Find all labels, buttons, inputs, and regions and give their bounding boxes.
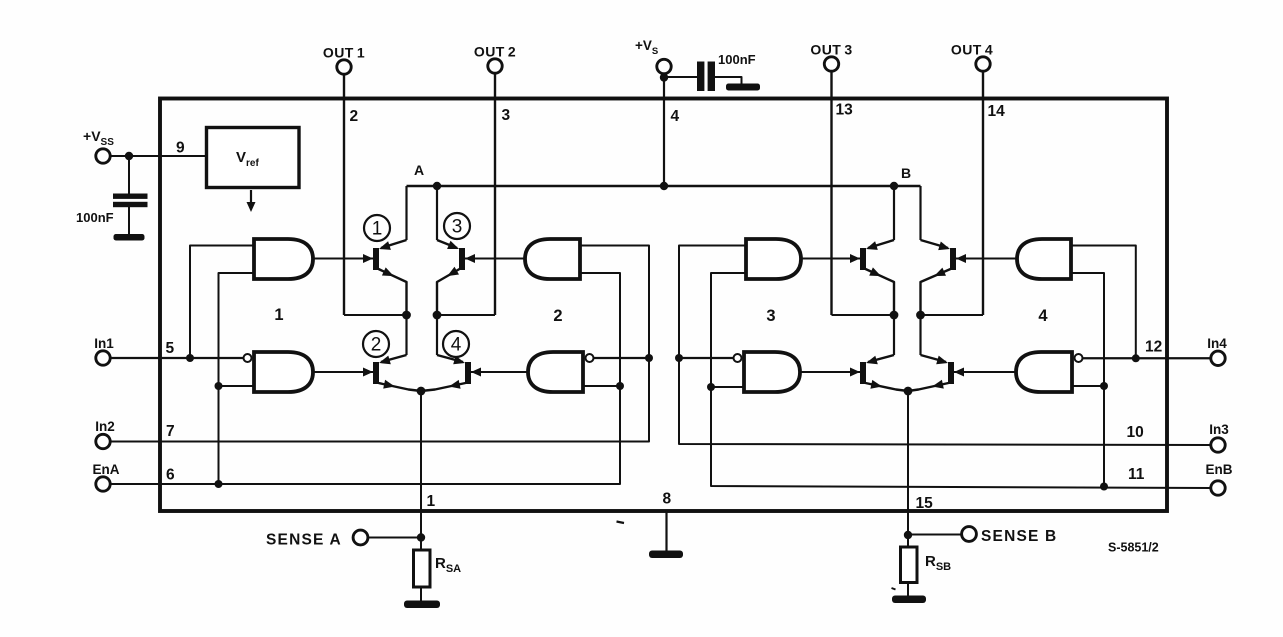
- transistor Q7/Q8-lower emitter: [908, 383, 949, 391]
- resistor RSA: [414, 550, 431, 587]
- wire OUT3 stem pin 13: [830, 71, 832, 315]
- svg-text:7: 7: [166, 423, 175, 440]
- transistor Q1/Q2-upper bar: [373, 248, 379, 270]
- node In1 junction: [186, 354, 194, 362]
- svg-text:EnA: EnA: [93, 462, 120, 477]
- wire EnA stub to gate2b: [583, 385, 620, 387]
- wire OUT1 stem pin 2: [343, 74, 345, 315]
- node +Vss junction: [125, 152, 133, 160]
- transistor Q5/Q6-upper base lead: [801, 258, 860, 260]
- node In2 gate2b tap: [645, 354, 653, 362]
- transistor number 1 circled: [364, 215, 390, 241]
- wire In4 row pin 12: [1083, 357, 1211, 359]
- svg-text:4: 4: [451, 335, 462, 356]
- svg-text:100nF: 100nF: [76, 210, 114, 225]
- svg-text:11: 11: [1128, 466, 1145, 483]
- AND gate 4b: [1016, 352, 1072, 392]
- ground symbol sense B: [892, 596, 926, 604]
- stray mark below border: [617, 522, 625, 524]
- svg-text:SENSE B: SENSE B: [981, 528, 1057, 545]
- terminal In3 circle: [1211, 438, 1225, 452]
- wire EnB row pin 11: [711, 273, 1211, 488]
- terminal SENSE B circle: [962, 527, 977, 542]
- terminal EnA circle: [96, 477, 110, 491]
- svg-text:12: 12: [1145, 339, 1162, 356]
- svg-text:9: 9: [176, 140, 185, 157]
- transistor Q1/Q2-upper emitter: [379, 269, 407, 315]
- wire sense B to resistor: [907, 535, 909, 547]
- svg-text:A: A: [414, 162, 424, 178]
- svg-text:In4: In4: [1207, 336, 1227, 351]
- wire Q7/Q8 upper riser: [919, 186, 921, 240]
- node EnB gate3b tap: [707, 383, 715, 391]
- terminal OUT2 circle: [488, 59, 502, 73]
- wire +Vs to capacitor: [664, 76, 698, 78]
- transistor Q3/Q4-upper base lead: [465, 258, 525, 260]
- transistor Q7/Q8-lower bar: [948, 362, 954, 384]
- AND gate 2a: [525, 239, 580, 279]
- node sense B junction: [904, 531, 912, 539]
- node Q3/Q4 output junction: [433, 311, 442, 320]
- svg-text:OUT 3: OUT 3: [810, 42, 852, 58]
- block Vref: [207, 128, 300, 188]
- wire EnA riser block1: [219, 273, 255, 484]
- wire EnA stub to gate1b: [219, 385, 255, 387]
- node sense A junction: [417, 533, 425, 541]
- wire EnB stub to gate3b: [711, 386, 744, 388]
- svg-text:8: 8: [663, 491, 672, 508]
- wire Q1/Q2 upper riser: [405, 186, 407, 240]
- terminal In4 circle: [1211, 351, 1225, 365]
- transistor Q3/Q4-upper emitter: [437, 269, 460, 315]
- Vref output arrow: [250, 190, 252, 206]
- svg-text:1: 1: [372, 219, 383, 240]
- transistor Q3/Q4-lower collector diagonal: [437, 355, 463, 362]
- wire In3 row pin 10: [679, 246, 1211, 446]
- svg-text:3: 3: [766, 307, 775, 325]
- wire Q3/Q4 output to pin: [437, 314, 495, 316]
- wire +Vss to Vref pin 9: [110, 155, 206, 157]
- svg-text:SENSE A: SENSE A: [266, 532, 342, 549]
- wire In1 riser to gate1a: [190, 246, 254, 359]
- svg-text:100nF: 100nF: [718, 52, 756, 67]
- wire RSB to ground: [907, 583, 909, 597]
- svg-text:3: 3: [452, 217, 463, 238]
- wire C1 to ground: [128, 207, 130, 235]
- transistor number 3 circled: [444, 213, 470, 239]
- transistor Q5/Q6-lower collector diagonal: [868, 355, 894, 362]
- wire In2 row: [110, 246, 649, 442]
- wire Q3/Q4 lower riser: [436, 315, 438, 355]
- transistor Q3/Q4-lower emitter: [421, 383, 466, 391]
- svg-text:1: 1: [274, 306, 283, 324]
- transistor Q5/Q6-upper emitter: [866, 269, 895, 315]
- svg-text:OUT 1: OUT 1: [323, 45, 365, 61]
- capacitor C1 100nF plates: [113, 194, 148, 199]
- svg-text:In1: In1: [94, 336, 114, 351]
- transistor Q1/Q2-upper collector diagonal: [381, 240, 407, 248]
- transistor number 2 circled: [363, 331, 389, 357]
- transistor Q5/Q6-lower bar: [860, 362, 866, 384]
- node EnA gate1b tap: [215, 382, 223, 390]
- resistor RSB: [901, 547, 918, 583]
- ground symbol left cap: [114, 234, 145, 241]
- wire Q3/Q4 upper riser: [436, 186, 438, 240]
- wire Q7/Q8 lower riser: [919, 315, 921, 355]
- svg-text:13: 13: [836, 102, 854, 119]
- node In4 junction: [1132, 354, 1140, 362]
- wire Q5/Q6 upper riser: [893, 186, 895, 240]
- wire EnB stub to gate4b: [1072, 385, 1104, 387]
- transistor Q7/Q8-upper bar: [950, 248, 956, 270]
- inverting bubble gate3b: [734, 354, 742, 362]
- transistor Q1/Q2-upper base lead: [313, 258, 373, 260]
- AND gate 3a: [746, 239, 801, 279]
- AND gate 2b: [528, 352, 583, 392]
- node In3 gate3b tap: [675, 354, 683, 362]
- stray mark near RSB ground: [892, 588, 896, 590]
- wire sense A to resistor: [420, 538, 422, 551]
- transistor Q7/Q8-upper collector diagonal: [921, 240, 949, 248]
- node Q7/Q8 output junction: [916, 311, 925, 320]
- terminal In1 circle: [96, 351, 110, 365]
- svg-text:In3: In3: [1209, 422, 1229, 437]
- svg-text:OUT 4: OUT 4: [951, 42, 993, 58]
- terminal EnB circle: [1211, 481, 1225, 495]
- wire OUT4 stem pin 14: [982, 71, 984, 315]
- svg-text:4: 4: [671, 108, 680, 125]
- node Q1/Q2 output junction: [402, 311, 411, 320]
- transistor Q5/Q6-lower emitter: [866, 383, 909, 391]
- node A: [433, 182, 441, 190]
- wire +Vs rail A to B: [407, 185, 921, 187]
- svg-text:14: 14: [988, 103, 1006, 120]
- wire EnA row: [110, 273, 620, 484]
- terminal OUT3 circle: [824, 57, 838, 71]
- transistor Q7/Q8-lower base lead: [954, 371, 1016, 373]
- AND gate 1b: [254, 352, 313, 392]
- wire OUT2 stem pin 3: [494, 73, 496, 315]
- transistor Q7/Q8-upper emitter: [921, 269, 951, 315]
- wire Q1/Q2 lower riser: [405, 315, 407, 355]
- node EnB gate4b tap: [1100, 382, 1108, 390]
- node bridge A common emitter: [417, 387, 426, 396]
- wire +Vss to capacitor C1: [128, 156, 130, 196]
- transistor Q5/Q6-lower base lead: [800, 371, 860, 373]
- svg-text:6: 6: [166, 467, 175, 484]
- transistor Q3/Q4-lower base lead: [471, 371, 528, 373]
- wire Q5/Q6 output to pin: [832, 314, 895, 316]
- transistor Q3/Q4-upper collector diagonal: [437, 240, 457, 248]
- svg-text:OUT 2: OUT 2: [474, 44, 516, 60]
- transistor Q3/Q4-upper bar: [459, 248, 465, 270]
- svg-text:4: 4: [1038, 307, 1048, 325]
- ground symbol top cap: [726, 84, 760, 91]
- transistor Q1/Q2-lower base lead: [313, 371, 373, 373]
- node EnA gate2b tap: [616, 382, 624, 390]
- svg-text:In2: In2: [95, 419, 115, 434]
- wire In3 stub to gate3b bubble: [679, 357, 734, 359]
- transistor Q3/Q4-lower bar: [465, 362, 471, 384]
- wire Q5/Q6 lower riser: [893, 315, 895, 355]
- wire sense A to terminal: [368, 537, 422, 539]
- svg-text:S-5851/2: S-5851/2: [1108, 541, 1159, 555]
- AND gate 1a: [254, 239, 313, 279]
- svg-text:B: B: [901, 165, 911, 181]
- transistor Q1/Q2-lower collector diagonal: [381, 355, 407, 362]
- inverting bubble gate4b: [1075, 354, 1083, 362]
- terminal OUT1 circle: [337, 60, 351, 74]
- wire Q1/Q2 output to pin: [344, 314, 407, 316]
- wire sense A pin 1: [420, 391, 422, 538]
- transistor number 4 circled: [443, 331, 469, 357]
- svg-text:10: 10: [1127, 424, 1144, 441]
- terminal +Vss circle: [96, 149, 110, 163]
- transistor Q7/Q8-lower collector diagonal: [921, 355, 947, 362]
- transistor Q7/Q8-upper base lead: [956, 258, 1017, 260]
- terminal SENSE A circle: [353, 530, 368, 545]
- node bridge B common emitter: [904, 387, 913, 396]
- wire capacitor to ground: [715, 77, 742, 84]
- IC boundary box: [160, 99, 1167, 512]
- terminal +Vs circle: [657, 59, 671, 73]
- ground symbol pin 8: [649, 551, 683, 559]
- svg-text:1: 1: [427, 493, 436, 510]
- svg-text:2: 2: [350, 108, 359, 125]
- node Q5/Q6 output junction: [890, 311, 899, 320]
- wire RSA to ground: [420, 587, 422, 601]
- AND gate 4a: [1017, 239, 1071, 279]
- wire In2 stub to gate2b bubble: [594, 357, 650, 359]
- node rail +Vs junction: [660, 182, 668, 190]
- node +Vs junction: [660, 73, 668, 81]
- svg-text:2: 2: [553, 307, 562, 325]
- wire EnB riser block4: [1071, 273, 1104, 487]
- wire In4 riser to gate4a: [1071, 246, 1136, 359]
- svg-text:5: 5: [166, 340, 175, 357]
- terminal In2 circle: [96, 434, 110, 448]
- node EnA row junction: [215, 480, 223, 488]
- terminal OUT4 circle: [976, 57, 990, 71]
- svg-text:EnB: EnB: [1206, 462, 1233, 477]
- ground symbol sense A: [404, 601, 440, 609]
- transistor Q1/Q2-lower emitter: [379, 383, 422, 391]
- node EnB gate4b riser junction: [1100, 483, 1108, 491]
- svg-text:3: 3: [502, 107, 511, 124]
- svg-text:15: 15: [916, 495, 934, 512]
- wire sense B to terminal: [908, 534, 962, 536]
- transistor Q5/Q6-upper collector diagonal: [868, 240, 894, 248]
- wire ground pin 8: [665, 511, 667, 551]
- AND gate 3b: [744, 352, 800, 392]
- wire +Vs stem pin 4: [663, 74, 665, 186]
- inverting bubble gate1b: [244, 354, 252, 362]
- node B: [890, 182, 898, 190]
- wire In1 row pin 5: [110, 357, 243, 359]
- svg-text:2: 2: [371, 335, 382, 356]
- inverting bubble gate2b: [586, 354, 594, 362]
- capacitor C2 100nF plates: [697, 62, 704, 92]
- wire sense B pin 15: [907, 391, 909, 535]
- transistor Q5/Q6-upper bar: [860, 248, 866, 270]
- transistor Q1/Q2-lower bar: [373, 362, 379, 384]
- wire Q7/Q8 output to pin: [921, 314, 984, 316]
